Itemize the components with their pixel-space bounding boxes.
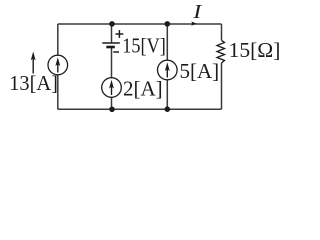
plus sign <box>116 33 124 35</box>
svg-text:5[A]: 5[A] <box>180 59 220 83</box>
wire left <box>57 24 59 109</box>
svg-text:15[V]: 15[V] <box>122 34 166 58</box>
junction node bottom-middle <box>109 107 115 113</box>
wire right bottom <box>221 63 223 109</box>
wire top <box>58 23 222 25</box>
junction node top-middle <box>109 21 115 27</box>
current source I3 5[A] <box>158 60 178 80</box>
battery V1 15[V] <box>102 30 123 52</box>
arrow label for 13[A] <box>31 52 36 74</box>
current arrow I on top wire <box>191 21 196 25</box>
wire bottom <box>58 108 222 110</box>
wire right top <box>221 24 223 40</box>
svg-text:2[A]: 2[A] <box>123 77 163 101</box>
current source I1 13[A] <box>48 55 68 75</box>
wire middle branch top <box>111 24 113 43</box>
junction node bottom-5A <box>165 106 171 112</box>
current source I2 2[A] <box>102 78 122 98</box>
svg-text:I: I <box>192 1 203 23</box>
svg-text:13[A]: 13[A] <box>9 71 58 95</box>
wire 5A branch <box>166 24 168 109</box>
minus sign <box>113 51 119 53</box>
wire middle branch bottom <box>111 48 113 110</box>
junction node top-5A <box>165 21 171 27</box>
svg-text:15[Ω]: 15[Ω] <box>229 38 281 62</box>
resistor R1 15[ohm] <box>217 40 225 63</box>
